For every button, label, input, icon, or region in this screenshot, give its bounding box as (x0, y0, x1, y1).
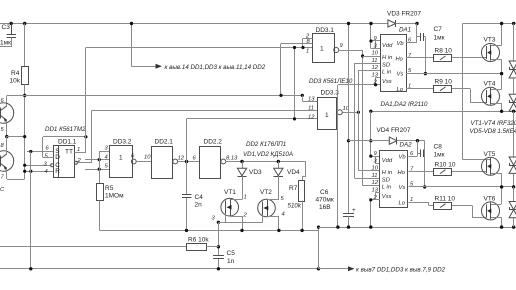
svg-text:Vdd: Vdd (382, 158, 393, 164)
wire V354 SD link (355, 63, 381, 179)
node junction pin6/V30 (29, 150, 32, 153)
svg-text:SD: SD (382, 62, 390, 68)
wire DA2 Vss bracket to gnd (371, 193, 381, 228)
resistor R5 1MOhm (97, 184, 125, 231)
svg-text:VD5-VD8 1.5КЕ440: VD5-VD8 1.5КЕ440 (470, 128, 516, 135)
transistor VT2 MOSFET (219, 189, 285, 231)
node junction opto emitters (5, 135, 8, 138)
wire DA2 Lo to R11 (409, 203, 435, 206)
node junction V362/DA1 Hin (361, 54, 364, 57)
wire +12V top bus H1 (0, 23, 388, 25)
svg-text:Vs: Vs (397, 72, 404, 78)
svg-text:DD1 К561ТМ2: DD1 К561ТМ2 (45, 126, 86, 133)
node junction DA2 Vss/gnd (369, 225, 372, 228)
capacitor C7 1uF (417, 26, 445, 74)
node junction V371/H1 (369, 22, 372, 25)
wire arrow to pins 14 DD1,DD3 (132, 24, 266, 71)
wire V30 down to bottom bus (30, 152, 32, 270)
wire V371 DA2 Vdd feed (371, 112, 381, 164)
svg-text:L in: L in (382, 185, 391, 191)
svg-text:VT3: VT3 (484, 37, 496, 44)
node junction R4 top (23, 22, 26, 25)
svg-text:R4: R4 (11, 70, 20, 77)
svg-text:12: 12 (372, 180, 379, 186)
gate DD2.2 (193, 138, 287, 178)
gate DD3.1 (305, 27, 353, 85)
capacitor C4 2n (182, 194, 203, 231)
wire DD3.1 output to V362 (339, 50, 381, 186)
node junction pin2 tie/H2 (301, 46, 304, 49)
svg-text:VT2: VT2 (260, 189, 272, 196)
svg-text:к выв.14 DD1,DD3 к выв.11,14 D: к выв.14 DD1,DD3 к выв.11,14 DD2 (165, 64, 266, 71)
svg-text:TT: TT (65, 149, 73, 156)
optocoupler transistor lower (0, 137, 25, 194)
svg-text:VT1-VT4 IRF3205: VT1-VT4 IRF3205 (471, 120, 516, 127)
gate DD2.1 (131, 138, 185, 178)
diode VD8 TVS (509, 187, 516, 227)
wire DD3.2 pin5 (85, 169, 109, 171)
svg-text:VT1: VT1 (224, 189, 236, 196)
node junction pin3/V24 (23, 164, 26, 167)
wire V358 DA1 Lin / DA2 Hin (359, 70, 381, 171)
svg-text:10: 10 (372, 51, 379, 57)
driver DA2 IR2110 (372, 142, 415, 208)
node junction H4/V85 (84, 135, 87, 138)
svg-text:Vss: Vss (382, 79, 392, 85)
svg-text:R6 10k: R6 10k (188, 237, 209, 244)
svg-text:C8: C8 (434, 144, 443, 151)
wire DD3.1 pin2 tie (303, 39, 313, 48)
node junction VT2 source/gnd (277, 229, 280, 232)
svg-text:Lo: Lo (399, 201, 406, 207)
svg-text:DA2: DA2 (400, 142, 413, 149)
node junction VD7/Vs B (512, 185, 515, 188)
svg-text:12: 12 (372, 65, 379, 71)
wire DA1 Lo to R9 (406, 88, 434, 90)
diode VD5 TVS (509, 24, 516, 79)
node junction DD2.2 out / VD1 (240, 160, 243, 163)
wire DA1 Vs to phase A (406, 73, 502, 75)
svg-text:R11 10: R11 10 (435, 196, 456, 203)
svg-text:R5: R5 (105, 185, 114, 192)
node junction VD4/Vb DA2 (416, 139, 419, 142)
node junction H3 end (301, 94, 304, 97)
wire opto mid to V24 (7, 136, 25, 138)
gate DD3.3 (308, 89, 350, 129)
driver DA1 IR2110 (372, 27, 429, 109)
node junction VT1 source/gnd (240, 229, 243, 232)
diode VD2 KD510A (274, 162, 301, 201)
svg-text:C5: C5 (227, 250, 236, 257)
wire DD3.1 pin8 from H3 (281, 44, 313, 96)
wire bottom bus H269 (0, 268, 319, 270)
capacitor C6 470uF 16V (316, 189, 357, 227)
svg-text:11: 11 (372, 58, 378, 64)
wire DA1 Vdd pins 9,3 bracket (371, 24, 381, 49)
svg-text:R10 10: R10 10 (435, 162, 456, 169)
node junction V371 DA2 Vdd stub (369, 155, 372, 158)
wire Vb pin6 DA2 (409, 141, 418, 157)
node junction DA1 Vss/gnd (336, 225, 339, 228)
wire arrow to pins 7 DD1,DD3 (319, 266, 446, 273)
node junction Vs B/V501 (500, 185, 503, 188)
wire V462 to VT5 drain (463, 24, 492, 160)
svg-text:DD2 К176ЛП1: DD2 К176ЛП1 (246, 141, 286, 148)
wire phase A horizontal (371, 111, 516, 113)
wire V318 link (318, 227, 320, 269)
svg-text:8,13: 8,13 (226, 156, 238, 162)
svg-text:11: 11 (308, 106, 314, 112)
node junction DD3.3 out/V358 (357, 111, 360, 114)
transistor VT1 MOSFET (212, 189, 248, 231)
svg-text:+: + (352, 207, 356, 214)
note VT1-VT4 types (471, 120, 516, 127)
svg-text:VD4: VD4 (287, 169, 300, 176)
node junction VD5/H_hv (512, 22, 515, 25)
wire top right bus H_hv (463, 23, 516, 25)
gate DD3.2 (inputs 3,4,5) (105, 138, 137, 177)
wire DD1.1 pin2 /Q output to H5 (78, 111, 92, 164)
svg-text:1МОм: 1МОм (105, 193, 124, 200)
svg-text:DD3.2: DD3.2 (113, 138, 132, 145)
node junction VD6/phase A (512, 110, 515, 113)
svg-text:к выв7 DD1,DD3 к выв.7,9 DD2: к выв7 DD1,DD3 к выв.7,9 DD2 (356, 266, 446, 273)
svg-text:11: 11 (372, 173, 378, 179)
svg-text:1мк: 1мк (434, 152, 445, 159)
node junction VD8/gnd (512, 225, 515, 228)
svg-text:C6: C6 (320, 189, 329, 196)
svg-text:DD2.1: DD2.1 (155, 138, 174, 145)
node junction phase A left end (369, 110, 372, 113)
svg-text:510k: 510k (288, 203, 302, 210)
capacitor C3 (0, 24, 16, 48)
svg-text:16В: 16В (319, 204, 331, 211)
node junction pin8 V281/H3 (279, 94, 282, 97)
wire DD3.3 pin13 from H3 (303, 96, 319, 102)
svg-text:L in: L in (382, 70, 391, 76)
svg-text:DD3.1: DD3.1 (316, 27, 335, 34)
wire V294 H2 to DD3.3 pin12 wire (294, 48, 296, 120)
svg-text:13: 13 (372, 72, 379, 78)
svg-text:13: 13 (308, 97, 315, 103)
svg-text:1мк: 1мк (0, 40, 11, 47)
svg-text:Vb: Vb (399, 154, 407, 160)
wire DA2 Vs to phase B (409, 186, 514, 188)
svg-text:470мк: 470мк (316, 197, 334, 204)
wire DD3.2 pin4 (85, 159, 109, 161)
diode VD7 TVS (509, 112, 516, 188)
node junction C6/gnd (347, 225, 350, 228)
svg-text:VD3 FR207: VD3 FR207 (387, 11, 421, 18)
svg-text:C4: C4 (195, 194, 204, 201)
wire DD2.1 out to DD2.2 in (178, 161, 200, 163)
node junction pin4/V30 (29, 170, 32, 173)
wire ground bus right (319, 227, 516, 229)
wire C4 vertical to DD3.3 pin12 (187, 119, 319, 196)
node junction C8/Vs DA2 (423, 185, 426, 188)
optocoupler transistor upper (0, 98, 14, 137)
svg-text:H in: H in (382, 55, 392, 61)
wire ground bus left H230 (100, 230, 319, 232)
node junction C4/gnd (185, 229, 188, 232)
svg-text:VD3: VD3 (249, 169, 262, 176)
svg-text:1: 1 (306, 49, 309, 55)
transistor VT4 MOSFET (482, 81, 502, 112)
wire H4 feedback (43, 136, 86, 138)
node junction arrow/H1 (130, 22, 133, 25)
resistor R4 10k (10, 24, 29, 172)
wire DA1 Ho to R8 (406, 57, 434, 59)
svg-text:1: 1 (320, 46, 324, 53)
svg-text:R: R (55, 168, 60, 175)
node junction V318/gnd (317, 226, 320, 229)
svg-text:DA1,DA2 IR2110: DA1,DA2 IR2110 (381, 101, 429, 108)
svg-text:R9 10: R9 10 (435, 79, 453, 86)
node junction V218/R6 (217, 245, 220, 248)
svg-text:12: 12 (308, 114, 315, 120)
node junction R7/gnd (300, 229, 303, 232)
node junction V348/VD4 wire (347, 139, 350, 142)
node junction gate node V218 (217, 221, 220, 224)
transistor VT6 MOSFET (482, 196, 502, 228)
transistor VT5 MOSFET (482, 151, 502, 204)
node junction C3 top (10, 22, 13, 25)
svg-text:C7: C7 (434, 26, 443, 33)
svg-text:DD2.2: DD2.2 (204, 138, 223, 145)
capacitor C5 1n (213, 250, 235, 269)
svg-text:1n: 1n (227, 258, 235, 265)
node junction V371/VD4 wire (369, 139, 372, 142)
svg-text:H in: H in (382, 170, 392, 176)
resistor R7 510k (288, 181, 305, 231)
diode VD3 FR207 (387, 11, 421, 28)
svg-text:Vdd: Vdd (382, 43, 393, 49)
svg-text:Vb: Vb (397, 41, 405, 47)
svg-text:4: 4 (45, 169, 48, 175)
node junction VT6 source/gnd (500, 225, 503, 228)
wire Vb pin6 DA1 (406, 24, 417, 44)
svg-text:Vss: Vss (382, 194, 392, 200)
capacitor C8 1uF (418, 141, 445, 188)
svg-text:1мк: 1мк (434, 35, 445, 42)
node junction V24 x wire (23, 135, 26, 138)
svg-text:R8 10: R8 10 (435, 48, 453, 55)
flip-flop DD1.1 K561TM2 (44, 126, 87, 178)
node junction DA2 Vss stub (369, 198, 372, 201)
svg-text:DA1: DA1 (399, 27, 411, 34)
wire V348 +12 rail to C6 (348, 24, 350, 214)
wire V218 gate node down through C5 (218, 223, 220, 257)
svg-text:Vs: Vs (399, 185, 406, 191)
wire Vss DA1 to gnd V338 (338, 78, 381, 228)
svg-text:10: 10 (144, 155, 151, 161)
diode VD6 TVS (509, 78, 516, 111)
svg-text:10k: 10k (10, 78, 21, 85)
svg-text:DD3 К561ЛЕ10: DD3 К561ЛЕ10 (309, 78, 353, 85)
node junction V348/H1 (347, 22, 350, 25)
diode VD4 FR207 (349, 127, 425, 145)
svg-text:D: D (55, 154, 60, 161)
wire DD2.2 output node (226, 162, 307, 181)
wire V99 inputs to R5 (99, 151, 101, 184)
wire DD1.1 pin3 C input (25, 165, 51, 167)
wire H3 bus y=95.4 (7, 96, 303, 106)
wire DD3.3 output (343, 112, 359, 114)
node junction C5/H269 (217, 267, 220, 270)
svg-text:R7: R7 (289, 185, 298, 192)
wire DD1.1 pin6 S input (27, 151, 54, 153)
svg-text:12: 12 (178, 156, 185, 162)
wire DD1.1 pin4 R input (25, 171, 55, 173)
node junction DD2.2 out / VD2 (277, 160, 280, 163)
node junction Vss bracket (374, 83, 377, 86)
transistor VT3 MOSFET (482, 24, 502, 90)
node junction V30/H269 (29, 267, 32, 270)
node junction C7/Vs wire (424, 72, 427, 75)
svg-text:C3: C3 (2, 24, 11, 31)
wire DA2 Ho to R10 (409, 171, 435, 173)
svg-text:VD1,VD2 КД510А: VD1,VD2 КД510А (243, 151, 293, 158)
node junction V294/H2 (293, 46, 296, 49)
node junction Vs A/V501 (500, 72, 503, 75)
node junction R4 / H3 (23, 94, 26, 97)
svg-text:2n: 2n (195, 202, 203, 209)
wire H2 to DD3.1 pin 1 (86, 47, 313, 49)
svg-text:10: 10 (372, 166, 379, 172)
node junction pin5/V99 (98, 168, 101, 171)
node junction VT4 source/phase A (500, 110, 503, 113)
note VD5-VD8 types (470, 128, 516, 135)
resistor R6 10k (0, 237, 219, 251)
svg-text:Ho: Ho (398, 170, 406, 176)
resistor R9 10 (434, 79, 487, 104)
node junction C4 tap (185, 160, 188, 163)
svg-text:Ho: Ho (396, 56, 404, 62)
wire DA1 Hin pin10 (363, 56, 381, 58)
svg-text:VD4 FR207: VD4 FR207 (377, 127, 411, 134)
wire gate chain DD3.2 out to DD2.1 in (136, 161, 152, 163)
resistor R11 10 (434, 196, 487, 218)
svg-text:1: 1 (325, 112, 329, 119)
svg-text:DD1.1: DD1.1 (58, 138, 77, 145)
diode VD1 KD510A (237, 151, 293, 200)
wire DD3.2 pin3 (99, 151, 109, 153)
node junction VT3 drain/H_hv (500, 22, 503, 25)
svg-text:SD: SD (382, 177, 390, 183)
node junction V371 Vdd stub (369, 39, 372, 42)
node junction V294/pin12 wire (293, 117, 296, 120)
svg-text:VT4: VT4 (484, 81, 496, 88)
node junction VD3/Vb (415, 22, 418, 25)
wire DD1.1 pin1 Q output up V85 to H2 (75, 48, 87, 154)
resistor R8 10 (434, 48, 487, 62)
svg-text:Lo: Lo (397, 87, 404, 93)
svg-text:1: 1 (119, 155, 123, 162)
node junction H269 right end (317, 267, 320, 270)
wire DD1.1 pin5 D input with V43 from H4 (43, 137, 55, 158)
svg-text:1: 1 (244, 195, 247, 201)
wire H5 to DD3.3 pin 11 (92, 110, 319, 112)
svg-text:DD3.3: DD3.3 (321, 89, 340, 96)
node junction pin4/V24 end (23, 170, 26, 173)
resistor R10 10 (434, 162, 487, 176)
svg-text:4: 4 (282, 212, 285, 218)
node junction pin4/V99 (98, 158, 101, 161)
